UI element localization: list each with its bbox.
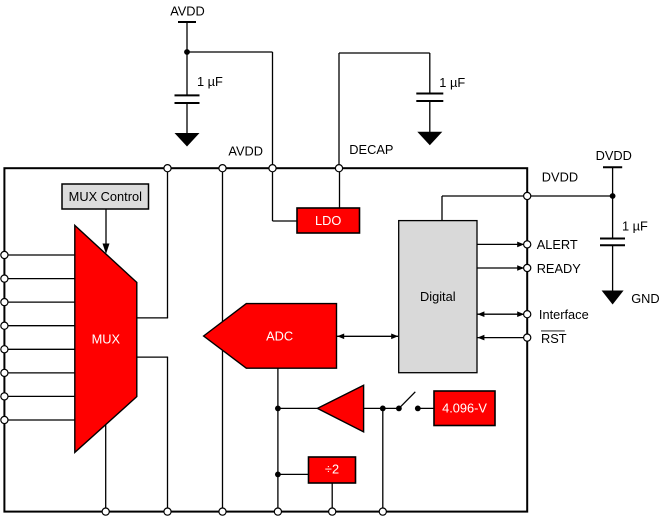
svg-text:READY: READY <box>537 261 582 276</box>
svg-text:DVDD: DVDD <box>596 148 632 163</box>
svg-text:1 µF: 1 µF <box>622 219 648 234</box>
svg-text:ALERT: ALERT <box>537 237 578 252</box>
svg-text:1 µF: 1 µF <box>439 75 465 90</box>
svg-text:MUX: MUX <box>92 331 121 346</box>
svg-text:AVDD: AVDD <box>170 4 205 19</box>
svg-text:4.096-V: 4.096-V <box>442 401 487 416</box>
svg-text:LDO: LDO <box>315 213 341 228</box>
svg-text:RST: RST <box>541 331 567 346</box>
svg-text:Digital: Digital <box>420 289 456 304</box>
svg-text:DECAP: DECAP <box>349 142 393 157</box>
svg-text:DVDD: DVDD <box>542 169 578 184</box>
svg-text:Interface: Interface <box>539 307 589 322</box>
svg-text:ADC: ADC <box>266 329 293 344</box>
svg-text:MUX Control: MUX Control <box>69 189 142 204</box>
svg-text:GND: GND <box>631 291 659 306</box>
svg-text:AVDD: AVDD <box>228 143 263 158</box>
svg-text:1 µF: 1 µF <box>197 74 223 89</box>
svg-text:÷2: ÷2 <box>325 462 339 477</box>
